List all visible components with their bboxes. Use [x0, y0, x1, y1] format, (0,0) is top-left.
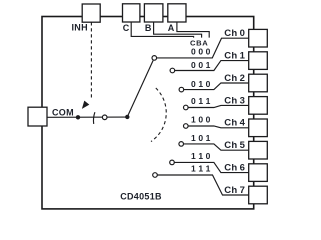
- wire COM to wiper pivot: [47, 116, 127, 118]
- svg-text:Ch 6: Ch 6: [224, 163, 245, 174]
- svg-text:011: 011: [191, 96, 211, 106]
- svg-text:010: 010: [191, 79, 211, 89]
- wire channel 3: [188, 105, 249, 107]
- wire channel 5: [184, 144, 249, 150]
- svg-text:Ch 7: Ch 7: [224, 185, 245, 196]
- svg-text:Ch 0: Ch 0: [224, 28, 245, 39]
- switch contact node channel 6: [170, 160, 175, 165]
- wire control C (from C box to code column C): [131, 22, 193, 38]
- channel box Ch 1: [249, 52, 268, 70]
- wire control B (from B box to code column B): [154, 22, 202, 38]
- wiper pivot node: [125, 115, 129, 119]
- pin box INH: [82, 4, 100, 22]
- svg-text:C: C: [123, 23, 130, 33]
- svg-text:Ch 2: Ch 2: [224, 73, 245, 84]
- switch contact node channel 0: [152, 56, 157, 61]
- wire channel 4: [188, 126, 249, 128]
- svg-text:INH: INH: [72, 23, 88, 33]
- arrowhead of INH control line: [82, 101, 89, 109]
- dashed control line from INH: [90, 22, 92, 98]
- wire control A (from A box to code column A): [177, 22, 209, 38]
- switch contact node channel 1: [170, 68, 175, 73]
- svg-text:Ch 4: Ch 4: [224, 118, 245, 129]
- wiper arm to channel 0 contact: [127, 61, 153, 117]
- svg-text:A: A: [168, 23, 175, 33]
- svg-text:001: 001: [191, 60, 211, 70]
- wire channel 7: [157, 175, 248, 195]
- channel box Ch 3: [249, 97, 268, 115]
- wire channel 2: [184, 83, 249, 90]
- svg-text:110: 110: [191, 151, 211, 161]
- svg-text:Ch 3: Ch 3: [224, 95, 245, 106]
- svg-text:100: 100: [191, 115, 211, 125]
- channel box Ch 5: [249, 141, 268, 159]
- channel box Ch 0: [249, 29, 268, 47]
- pin box B: [144, 4, 163, 22]
- svg-text:CD4051B: CD4051B: [120, 191, 162, 201]
- svg-text:000: 000: [191, 46, 211, 56]
- channel box Ch 4: [249, 119, 268, 137]
- switch contact node channel 3: [184, 105, 189, 110]
- wire channel 1: [175, 61, 249, 71]
- pin box COM: [28, 107, 47, 126]
- svg-text:Ch 1: Ch 1: [224, 51, 245, 62]
- dashed rotation arc of wiper: [151, 88, 166, 142]
- svg-text:111: 111: [191, 163, 211, 173]
- switch contact node channel 7: [153, 173, 158, 178]
- switch contact node channel 2: [179, 87, 184, 92]
- actuator tick across COM wire: [93, 112, 94, 124]
- svg-text:B: B: [145, 23, 152, 33]
- channel box Ch 7: [249, 186, 268, 204]
- switch contact node channel 4: [184, 124, 189, 129]
- wire channel 0: [157, 38, 249, 58]
- chip outline CD4051B: [42, 17, 254, 209]
- junction node on COM wire: [76, 115, 80, 119]
- pin box C: [123, 4, 140, 22]
- svg-text:Ch 5: Ch 5: [224, 140, 245, 151]
- svg-text:101: 101: [191, 133, 211, 143]
- wire channel 6: [174, 162, 248, 172]
- svg-text:COM: COM: [52, 108, 74, 118]
- pin box A: [168, 4, 186, 22]
- channel box Ch 6: [249, 164, 268, 182]
- channel box Ch 2: [249, 74, 268, 92]
- open contact node on COM wire: [102, 115, 107, 120]
- switch contact node channel 5: [179, 142, 184, 147]
